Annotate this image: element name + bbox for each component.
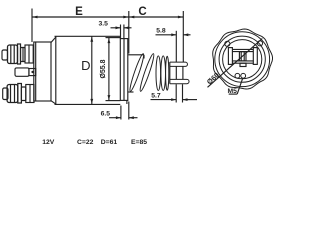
bolt hole bottom left [235, 73, 240, 78]
spring coil loop 2 [138, 53, 155, 92]
contact bridge bottom band [232, 61, 253, 63]
dimension line D vertical [90, 36, 93, 104]
svg-text:5.7: 5.7 [151, 92, 161, 99]
body bottom edge [55, 103, 121, 105]
svg-text:Ø55.8: Ø55.8 [100, 59, 107, 78]
dimension line 3.5 [111, 26, 132, 29]
center tab below [240, 63, 246, 66]
terminal stud B+ hex nut [8, 45, 18, 64]
dimension 5.7 extension lines [176, 84, 182, 102]
clevis left edge [169, 62, 171, 84]
terminal stud M insulator bushing [21, 87, 25, 101]
label E [75, 6, 83, 18]
spec text D=61 [101, 139, 118, 146]
flange back foot [126, 100, 128, 104]
terminal stud M washer [18, 84, 22, 104]
label dia 55.8 rotated [100, 59, 107, 78]
svg-text:E: E [75, 6, 83, 18]
clevis bottom arm [170, 79, 189, 83]
dimension line 5.7 [151, 98, 198, 101]
dimension E/C shared extension line [128, 11, 130, 54]
dia 60 leader line diagonal [208, 39, 263, 88]
spring coil loop 1 [128, 53, 145, 92]
spring end coil 2 [161, 56, 166, 91]
svg-text:3.5: 3.5 [98, 21, 108, 28]
bolt hole upper right [257, 41, 262, 46]
dimension E extension line left [31, 9, 33, 43]
bolt hole bottom right [241, 73, 246, 78]
spec text 12V [42, 139, 55, 146]
dimension line dia55.8 vertical [108, 38, 111, 101]
spec text E=85 [131, 139, 147, 146]
svg-text:C=22: C=22 [77, 139, 94, 146]
contact bridge top band [232, 49, 253, 51]
end view flange inner circle [215, 32, 270, 87]
label C [138, 6, 146, 18]
front cap outline [34, 42, 51, 101]
end view outer scalloped flange ring [213, 29, 273, 89]
label dia 60 rotated [205, 71, 221, 87]
front cap face inner line [35, 42, 37, 101]
spade terminal base with hole [29, 69, 36, 76]
label 3.5 [98, 21, 108, 28]
mounting flange mid line [123, 39, 125, 101]
cap-body chamfer top [51, 37, 56, 43]
terminal stud M hex nut [7, 85, 18, 103]
dimension 6.5 extension lines [121, 102, 129, 120]
rear housing bottom line [106, 100, 121, 102]
dimension line C [129, 16, 184, 19]
center plunger square [239, 52, 246, 61]
terminal stud B+ insulator bushing [21, 48, 26, 62]
body top edge [55, 35, 121, 37]
contact bar right [253, 48, 257, 65]
clevis pin right edge [182, 66, 184, 79]
clevis pin left edge [175, 66, 177, 79]
label 5.7 [151, 92, 161, 99]
mounting flange [120, 39, 128, 101]
rear housing top line [106, 37, 121, 39]
label 6.5 [101, 110, 111, 117]
label D [81, 58, 90, 73]
svg-text:D=61: D=61 [101, 139, 118, 146]
cap-body chamfer bottom [51, 101, 56, 105]
dimension C extension line right [182, 11, 184, 62]
svg-text:D: D [81, 58, 90, 73]
terminal stud B+ thread stub [2, 50, 8, 60]
end view inner circle [223, 40, 262, 79]
svg-text:C: C [138, 6, 146, 18]
body front seam [55, 37, 57, 105]
spade terminal blade [15, 68, 29, 76]
spec text C=22 [77, 139, 94, 146]
terminal stud M base block [26, 85, 34, 103]
svg-text:12V: 12V [42, 139, 55, 146]
spring end coil 1 [156, 56, 161, 91]
dimension line E [32, 16, 129, 19]
contact bar left [228, 48, 232, 65]
boot bottom line [128, 91, 133, 93]
dimension 3.5 extension lines [121, 25, 124, 39]
end view housing circle [219, 36, 265, 82]
terminal stud B+ base block [25, 45, 33, 63]
svg-text:E=85: E=85 [131, 139, 147, 146]
terminal stud B+ washer [18, 44, 21, 64]
spring retainer washer [166, 56, 169, 90]
clevis top arm [170, 62, 188, 66]
label M5 with leader [227, 79, 242, 96]
label 5.8 [156, 27, 166, 34]
bolt hole upper left [225, 41, 230, 46]
dimension line 5.8 [156, 33, 191, 36]
boot top line [128, 55, 144, 59]
svg-text:5.8: 5.8 [156, 27, 166, 34]
svg-text:6.5: 6.5 [101, 110, 111, 117]
dimension 5.8 extension line [175, 31, 177, 62]
terminal stud M thread stub [3, 88, 8, 100]
dimension line 6.5 [109, 116, 138, 119]
